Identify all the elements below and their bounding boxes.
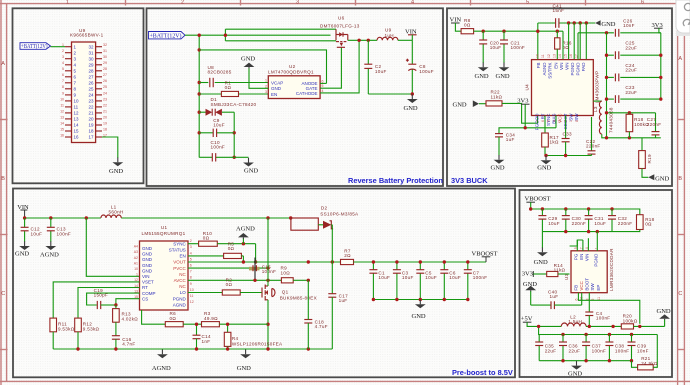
svg-text:SYNC: SYNC — [173, 241, 186, 246]
svg-text:29: 29 — [88, 62, 94, 67]
wire top rail box5 — [531, 209, 640, 215]
junction C2 node — [367, 39, 370, 42]
svg-text:A3: A3 — [134, 250, 138, 254]
svg-text:2: 2 — [62, 49, 64, 53]
svg-text:4.02kΩ: 4.02kΩ — [122, 316, 139, 321]
svg-text:9: 9 — [62, 91, 64, 95]
power label +5V — [521, 316, 562, 327]
svg-text:4: 4 — [190, 251, 192, 255]
wire gnd drop box5 top — [541, 232, 543, 248]
svg-text:NC: NC — [179, 284, 186, 289]
capacitor C17 — [328, 262, 348, 349]
svg-text:GND: GND — [475, 73, 489, 80]
svg-text:LMR33620CDDAR: LMR33620CDDAR — [609, 248, 614, 291]
capacitor C14 — [193, 323, 211, 350]
svg-text:BUK9M85-80EX: BUK9M85-80EX — [280, 296, 317, 301]
svg-text:GND: GND — [15, 251, 29, 258]
svg-text:EN: EN — [553, 63, 558, 69]
svg-text:49.9Ω: 49.9Ω — [204, 316, 218, 321]
connector U9 pins — [60, 43, 107, 140]
svg-text:GND: GND — [109, 168, 123, 175]
svg-text:10uF: 10uF — [378, 275, 390, 280]
svg-text:10: 10 — [74, 99, 80, 104]
svg-text:NC: NC — [179, 272, 186, 277]
svg-text:32: 32 — [88, 44, 94, 49]
resistor R7 — [341, 248, 487, 264]
ground under C8 — [407, 94, 418, 103]
svg-text:3V3: 3V3 — [517, 98, 528, 105]
op-amp U2 LM74700QDBVRQ1 — [265, 64, 324, 98]
svg-text:100nF: 100nF — [262, 269, 277, 274]
ground up over U2 — [244, 63, 255, 67]
wire VOUT row — [188, 261, 341, 263]
svg-text:8: 8 — [575, 120, 579, 122]
capacitor C4 — [585, 293, 610, 327]
svg-text:VIN: VIN — [564, 63, 569, 71]
svg-text:GND: GND — [453, 102, 467, 109]
svg-text:10nF: 10nF — [637, 348, 649, 353]
svg-text:SMBJ33CA-C78420: SMBJ33CA-C78420 — [211, 102, 257, 107]
svg-text:30: 30 — [88, 56, 94, 61]
wire mosfet out — [348, 39, 377, 41]
svg-text:24.9kΩ: 24.9kΩ — [641, 361, 658, 366]
capacitor C30 — [562, 209, 586, 232]
resistor R22 — [486, 90, 538, 124]
capacitor C2 — [364, 40, 386, 94]
svg-text:CS: CS — [142, 296, 148, 301]
svg-text:15: 15 — [60, 127, 64, 131]
svg-text:A: A — [678, 56, 682, 62]
resistor R19 — [639, 138, 652, 178]
svg-text:AGND: AGND — [40, 252, 59, 259]
svg-text:10: 10 — [535, 54, 539, 58]
section box connector — [13, 8, 144, 183]
svg-text:PGND: PGND — [570, 62, 575, 76]
svg-text:6: 6 — [574, 299, 578, 301]
IC U1 LM5155QRUMRQ1 — [140, 225, 189, 310]
wire lower rail box5 — [542, 231, 612, 233]
svg-text:B: B — [678, 176, 682, 182]
junction R5 drop — [242, 260, 245, 263]
svg-text:27: 27 — [103, 73, 107, 77]
svg-text:25: 25 — [88, 86, 94, 91]
svg-text:FB: FB — [536, 63, 541, 69]
svg-text:16: 16 — [74, 135, 80, 140]
svg-text:R19: R19 — [647, 154, 652, 163]
resistor R16 — [555, 31, 572, 59]
svg-text:15nF: 15nF — [553, 8, 565, 13]
svg-text:26: 26 — [88, 80, 94, 85]
svg-text:6: 6 — [322, 79, 324, 83]
wire top parallel — [225, 28, 336, 30]
wire cathode — [320, 40, 359, 93]
ground up left box5 — [523, 281, 537, 305]
svg-text:9.53kΩ: 9.53kΩ — [83, 326, 100, 331]
svg-text:LO: LO — [180, 290, 187, 295]
svg-text:100nF: 100nF — [473, 275, 488, 280]
svg-text:13: 13 — [74, 117, 80, 122]
svg-text:PGND: PGND — [576, 62, 581, 76]
wire output ladder rails — [606, 33, 608, 138]
wire U2 gnd — [249, 68, 268, 88]
svg-text:WSLP1206R0150FEA: WSLP1206R0150FEA — [232, 341, 283, 346]
capacitor C35 — [535, 335, 556, 361]
U1 right pin numbers — [190, 239, 194, 304]
svg-text:25: 25 — [103, 85, 107, 89]
ground under C34 — [494, 155, 505, 164]
svg-text:10uF: 10uF — [31, 231, 43, 236]
svg-text:22uF: 22uF — [625, 68, 637, 73]
capacitor C20 — [479, 31, 501, 63]
svg-text:+BATT(12V): +BATT(12V) — [150, 33, 182, 40]
wire gate — [320, 47, 341, 88]
svg-text:100kΩ: 100kΩ — [623, 318, 638, 323]
svg-text:0Ω: 0Ω — [170, 316, 177, 321]
junction Q1 drain branch — [266, 216, 269, 219]
resistor R5 — [188, 242, 243, 263]
svg-text:100nF: 100nF — [511, 45, 526, 50]
svg-text:0Ω: 0Ω — [645, 222, 652, 227]
svg-text:5: 5 — [547, 120, 551, 122]
svg-text:AGND: AGND — [236, 225, 255, 232]
capacitor C7 — [464, 260, 488, 299]
junction U1 VIN branch — [85, 216, 88, 219]
capacitor C26 — [615, 19, 634, 37]
IC U3 LMR33620CDDAR — [564, 248, 614, 293]
junction — [224, 34, 227, 37]
svg-text:A4: A4 — [134, 245, 138, 249]
ground AGND bottom box4 — [157, 350, 168, 359]
wire bottom rail box4 — [53, 348, 332, 350]
U3 bottom pin names — [574, 278, 602, 291]
svg-text:7: 7 — [62, 79, 64, 83]
svg-text:EP: EP — [596, 285, 601, 291]
svg-text:10uF: 10uF — [425, 275, 437, 280]
inductor L2 1.5uH — [561, 314, 586, 326]
svg-text:10uF: 10uF — [213, 122, 225, 127]
svg-text:12: 12 — [60, 109, 64, 113]
svg-text:1: 1 — [265, 79, 267, 83]
svg-text:20: 20 — [88, 117, 94, 122]
junction R18 bottom — [628, 136, 631, 139]
junction C30 — [564, 207, 567, 210]
capacitor C16 — [112, 336, 136, 349]
junction C14 bottom — [195, 347, 198, 350]
wire gnd rail under U4 — [545, 155, 592, 157]
wire D1 right vertical — [233, 112, 235, 157]
svg-text:0Ω: 0Ω — [226, 282, 233, 287]
IC U4 LM43603PWP — [525, 60, 600, 116]
svg-text:RT: RT — [142, 285, 148, 290]
capacitor C36 — [559, 335, 580, 361]
U1 left pin names — [142, 246, 156, 301]
resistor R14 — [547, 263, 570, 277]
svg-text:2: 2 — [181, 0, 184, 5]
svg-text:1uF: 1uF — [339, 298, 348, 303]
svg-text:12: 12 — [74, 111, 80, 116]
svg-text:B: B — [1, 176, 5, 182]
svg-text:0Ω: 0Ω — [464, 23, 471, 28]
ground under C12 — [19, 241, 30, 250]
inductor L3 744043068 — [593, 101, 661, 138]
junction R18 top — [628, 111, 631, 114]
svg-text:15: 15 — [564, 54, 568, 58]
svg-text:3: 3 — [558, 120, 562, 122]
svg-text:1nF: 1nF — [202, 339, 211, 344]
capacitor C41 — [538, 4, 595, 60]
power label VIN box4 — [17, 204, 29, 218]
svg-text:4.7uF: 4.7uF — [315, 324, 328, 329]
svg-text:11: 11 — [74, 105, 79, 110]
svg-text:100uF: 100uF — [419, 69, 434, 74]
svg-text:22: 22 — [88, 105, 94, 110]
svg-text:2Ω: 2Ω — [344, 253, 351, 258]
resistor R11 — [50, 282, 140, 349]
svg-text:A1: A1 — [134, 261, 138, 265]
capacitor C31 — [585, 209, 606, 232]
ground flag right of C41 — [595, 20, 616, 28]
svg-text:4: 4 — [62, 61, 64, 65]
svg-text:22uF: 22uF — [545, 348, 557, 353]
junction rung0 — [605, 31, 608, 34]
ground under U4 — [541, 156, 552, 165]
svg-text:82CB0285: 82CB0285 — [208, 70, 232, 75]
svg-text:5: 5 — [526, 0, 529, 5]
svg-text:32: 32 — [103, 43, 107, 47]
svg-text:10uF: 10uF — [402, 275, 414, 280]
capacitor C32 — [608, 209, 632, 232]
power label VBOOST box4 — [472, 250, 498, 262]
svg-text:A2: A2 — [134, 256, 138, 260]
wire D2 cathode down — [331, 225, 333, 262]
svg-text:GND: GND — [142, 257, 153, 262]
svg-text:19: 19 — [103, 121, 107, 125]
junction C18 column — [307, 260, 310, 263]
svg-text:6: 6 — [641, 0, 644, 5]
svg-text:21: 21 — [103, 109, 107, 113]
svg-text:SYNC: SYNC — [546, 113, 551, 126]
svg-text:18: 18 — [88, 129, 94, 134]
svg-text:8: 8 — [190, 276, 192, 280]
resistor R4 WSLP — [224, 323, 283, 350]
wire gnd rail box2 — [368, 93, 412, 95]
svg-text:5: 5 — [190, 257, 192, 261]
svg-text:220nF: 220nF — [572, 221, 587, 226]
U3 top pin names — [573, 253, 598, 267]
ground under connector — [112, 158, 123, 167]
section box 3V3 buck — [447, 8, 672, 186]
svg-text:22uF: 22uF — [625, 45, 637, 50]
U4 bottom pin names — [535, 113, 579, 131]
junction L3 out — [605, 136, 608, 139]
inductor U9 1uH — [377, 28, 398, 41]
svg-text:220nF: 220nF — [586, 144, 601, 149]
svg-text:VIN: VIN — [450, 16, 462, 23]
svg-text:AGND: AGND — [152, 365, 171, 372]
svg-text:15: 15 — [74, 129, 80, 134]
svg-text:11: 11 — [60, 103, 64, 107]
junction FB row — [605, 111, 608, 114]
wire VIN to U1 — [86, 218, 139, 276]
svg-text:100nF: 100nF — [57, 231, 72, 236]
wire output rung0 — [578, 32, 614, 34]
svg-text:VOUT: VOUT — [173, 260, 186, 265]
svg-text:BOOT: BOOT — [585, 278, 590, 291]
svg-text:1uF: 1uF — [506, 137, 515, 142]
svg-text:0Ω: 0Ω — [228, 246, 235, 251]
wire label to pin1 — [51, 46, 66, 48]
resistor R18 100k — [626, 113, 649, 138]
wire to gnd box2 bottom — [234, 156, 248, 158]
junction C20 — [482, 30, 485, 33]
svg-text:18: 18 — [103, 127, 107, 131]
resistor R21 — [632, 335, 658, 370]
capacitor C18 — [304, 280, 328, 349]
junction VBOOST stem — [529, 207, 532, 210]
svg-text:24: 24 — [103, 91, 107, 95]
svg-text:GND: GND — [491, 164, 505, 171]
wire pin17 to gnd — [102, 137, 118, 158]
junction C13 — [49, 216, 52, 219]
diode D2 SS10P6-M3/85A — [291, 206, 359, 231]
svg-text:SW: SW — [569, 113, 574, 121]
svg-text:23: 23 — [103, 97, 107, 101]
global label +BATT(12V) — [20, 43, 51, 50]
svg-text:2: 2 — [265, 84, 267, 88]
resistor R12 — [75, 288, 140, 350]
svg-text:PGND: PGND — [173, 296, 187, 301]
svg-text:100nF: 100nF — [592, 348, 607, 353]
svg-text:19: 19 — [88, 123, 94, 128]
wire Q1 drain — [267, 218, 269, 283]
svg-text:14: 14 — [558, 54, 562, 58]
power label VIN — [405, 28, 417, 40]
svg-text:GND: GND — [657, 308, 671, 315]
svg-text:14: 14 — [74, 123, 80, 128]
svg-text:VCC: VCC — [579, 280, 584, 290]
wire caps gnd rail — [373, 299, 467, 301]
section box 5V buck — [520, 190, 673, 377]
svg-text:3: 3 — [62, 55, 64, 59]
svg-text:GND: GND — [142, 246, 153, 251]
svg-text:30: 30 — [103, 55, 107, 59]
svg-text:GND: GND — [534, 259, 548, 266]
resistor R1 — [199, 81, 268, 97]
svg-text:PGND: PGND — [594, 253, 599, 267]
svg-text:2: 2 — [190, 239, 192, 243]
svg-text:100nF: 100nF — [596, 316, 611, 321]
svg-text:22uF: 22uF — [625, 90, 637, 95]
svg-text:FB: FB — [574, 285, 579, 291]
svg-text:GND: GND — [537, 164, 551, 171]
svg-text:SS10P6-M3/85A: SS10P6-M3/85A — [320, 211, 359, 216]
svg-text:0Ω: 0Ω — [203, 236, 210, 241]
svg-text:U1: U1 — [161, 225, 168, 230]
transistor U6 DMT6007LFG-13 — [320, 16, 360, 48]
svg-text:28: 28 — [103, 67, 107, 71]
capacitor C5 — [416, 260, 437, 299]
svg-text:5: 5 — [322, 84, 324, 88]
svg-text:VIN: VIN — [584, 254, 589, 262]
svg-text:29: 29 — [103, 61, 107, 65]
capacitor C6 — [440, 260, 461, 299]
rung C23 — [605, 85, 663, 103]
svg-text:744043068: 744043068 — [609, 107, 614, 133]
svg-text:U2: U2 — [289, 64, 296, 69]
resistor R17 — [542, 116, 559, 156]
ground under top caps — [537, 248, 548, 257]
svg-text:13: 13 — [60, 115, 64, 119]
capacitor C8 polarized — [406, 40, 434, 94]
resistor R2 — [188, 277, 262, 295]
svg-text:K96665BWV-1: K96665BWV-1 — [70, 33, 104, 38]
svg-text:26: 26 — [103, 79, 107, 83]
resistor R10 — [188, 231, 256, 246]
ground under output caps — [415, 300, 426, 309]
svg-text:VSET: VSET — [142, 280, 154, 285]
capacitor C10 — [199, 140, 234, 162]
wire coil to VIN — [398, 39, 412, 41]
svg-text:AGND: AGND — [173, 302, 187, 307]
svg-text:150pF: 150pF — [94, 293, 109, 298]
svg-text:3: 3 — [190, 245, 192, 249]
power label 3V3 top right — [652, 22, 663, 33]
capacitor C29 — [538, 209, 559, 232]
svg-text:SS/TRK: SS/TRK — [548, 63, 553, 79]
ground bottom box2 — [243, 158, 254, 167]
svg-text:20: 20 — [103, 115, 107, 119]
svg-text:6: 6 — [62, 73, 64, 77]
capacitor C15 DNP — [188, 258, 276, 280]
svg-text:U4: U4 — [525, 84, 530, 91]
svg-text:28: 28 — [88, 68, 94, 73]
svg-text:1: 1 — [136, 273, 138, 277]
ground AGND up — [236, 225, 255, 243]
ground flag R22 row — [453, 100, 487, 108]
svg-text:10Ω: 10Ω — [281, 270, 291, 275]
wire bottom rail box5 — [539, 360, 631, 362]
junction C29 — [541, 207, 544, 210]
svg-text:LM74700QDBVRQ1: LM74700QDBVRQ1 — [268, 70, 314, 75]
svg-text:22: 22 — [103, 103, 107, 107]
svg-text:VCAP: VCAP — [271, 80, 283, 85]
svg-text:PVCC: PVCC — [173, 266, 186, 271]
ground under C21 — [499, 63, 510, 72]
svg-text:12: 12 — [190, 300, 194, 304]
wire R6 R3 row — [142, 310, 166, 324]
ground flag bottom right box3 — [648, 174, 669, 182]
rung C25 — [605, 41, 663, 60]
svg-text:D2: D2 — [321, 206, 328, 211]
svg-text:EN: EN — [579, 254, 584, 260]
svg-text:+BATT(12V): +BATT(12V) — [21, 43, 48, 50]
svg-text:STATUS: STATUS — [169, 248, 186, 253]
svg-text:10uF: 10uF — [548, 221, 560, 226]
svg-text:C33: C33 — [563, 131, 572, 136]
capacitor C39 — [628, 335, 649, 361]
svg-text:7: 7 — [535, 120, 539, 122]
capacitor C19 150pF — [87, 288, 140, 309]
wire +BATT to mosfet — [185, 34, 331, 36]
svg-text:C: C — [1, 291, 5, 297]
svg-text:EN: EN — [180, 254, 186, 259]
resistor R3 — [183, 311, 268, 327]
sheet frame left double line — [0, 0, 2, 385]
svg-text:12: 12 — [547, 54, 551, 58]
U4 top pin numbers — [535, 54, 578, 58]
junction C32 — [610, 207, 613, 210]
wire L2 to R20 — [586, 325, 621, 327]
